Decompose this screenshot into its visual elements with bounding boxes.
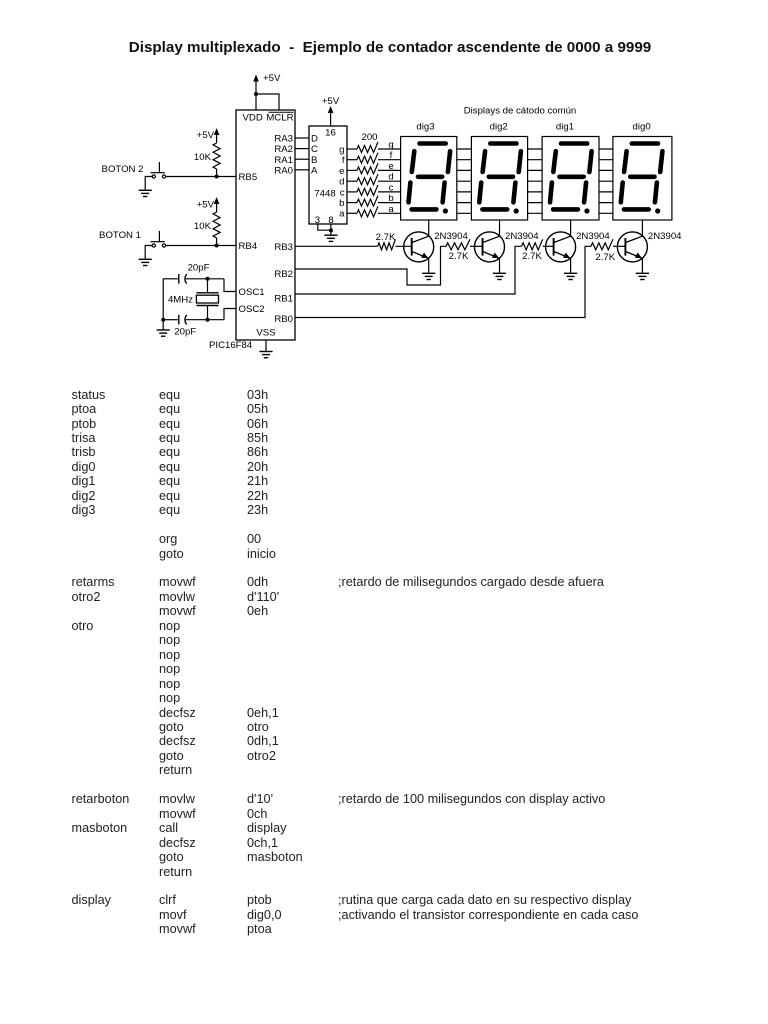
svg-text:BOTON 2: BOTON 2 — [102, 164, 144, 175]
U2 pin number 8 — [328, 215, 333, 226]
label Q2 2N3904 — [505, 231, 539, 242]
resistor 200 segment c — [357, 185, 378, 196]
U2 pin label c — [340, 187, 345, 198]
svg-text:dig2: dig2 — [490, 122, 508, 133]
label BOTON 2 — [102, 164, 144, 175]
U1 pin label MCLR (active low) — [266, 112, 293, 123]
node XTAL bottom junction — [206, 318, 210, 322]
wire to OSC2 — [224, 309, 236, 320]
U2 pin label A — [311, 165, 318, 176]
label 20pF (C2) — [174, 327, 196, 338]
wire segment c to displays — [378, 191, 613, 193]
svg-text:RB0: RB0 — [274, 314, 293, 325]
resistor 200 segment b — [357, 196, 378, 207]
resistor network value 200 — [361, 132, 377, 143]
svg-text:+5V: +5V — [322, 96, 340, 107]
label 10K (R2) — [194, 221, 212, 232]
U2 pin label D — [311, 134, 318, 145]
svg-text:OSC1: OSC1 — [239, 287, 265, 298]
ground Q4 — [636, 273, 649, 279]
svg-text:PIC16F84: PIC16F84 — [209, 340, 253, 351]
U1 pin label VDD — [243, 113, 263, 124]
svg-text:C: C — [311, 144, 318, 155]
node pin8 junction — [329, 228, 333, 232]
wire rail to ground — [162, 320, 164, 330]
U2 pin label g — [339, 144, 344, 155]
svg-text:g: g — [339, 144, 344, 155]
push button S1 BOTON 1 — [151, 231, 166, 247]
label 10K (R1) — [194, 152, 212, 163]
resistor R2 10K pullup — [213, 212, 220, 246]
U2 pin number 3 — [315, 215, 320, 226]
resistor 200 segment e — [357, 163, 378, 174]
transistor Q4 2N3904 — [617, 232, 647, 262]
IC U2 7448 body — [309, 126, 347, 224]
wire Q2 emitter to ground — [499, 258, 501, 273]
svg-text:RB1: RB1 — [274, 294, 293, 305]
svg-text:+5V: +5V — [197, 130, 215, 141]
label 4MHz (X1) — [168, 295, 193, 306]
wire S1 to RB4 — [166, 245, 236, 247]
node RB4 pullup junction — [215, 244, 219, 248]
U2 pin label d — [339, 177, 344, 188]
display dig0 7-segment — [613, 137, 672, 221]
wire segment g to displays — [378, 148, 613, 150]
label Q4 2N3904 — [648, 231, 682, 242]
U1 pin label RB5 — [239, 172, 258, 183]
wire 7448 d to resistor — [347, 180, 357, 182]
svg-text:c: c — [340, 187, 345, 198]
wire segment f to displays — [378, 159, 613, 161]
ground VSS — [259, 352, 272, 358]
wire display cathode to Q1 collector — [428, 220, 430, 237]
svg-text:2N3904: 2N3904 — [576, 231, 610, 242]
label 2.7K (Q3) — [522, 251, 542, 262]
wire segment d to displays — [378, 180, 613, 182]
wire RB0 from U1 — [295, 246, 591, 317]
U1 pin label RA0 — [274, 165, 293, 176]
wire 7448 pins 3,8 to ground — [318, 224, 331, 235]
transistor Q1 2N3904 — [404, 232, 434, 262]
svg-text:c: c — [389, 182, 394, 193]
svg-text:b: b — [339, 198, 344, 209]
U1 pin label OSC2 — [239, 304, 265, 315]
transistor Q3 2N3904 — [546, 232, 576, 262]
svg-text:RA1: RA1 — [274, 155, 293, 166]
svg-text:RB5: RB5 — [239, 172, 258, 183]
+5V supply arrow (7448 pin 16) — [322, 96, 340, 126]
resistor 2.7K (Q2 base) — [446, 239, 483, 250]
node RB5 pullup junction — [215, 175, 219, 179]
label 2.7K (Q2) — [449, 251, 469, 262]
svg-text:BOTON 1: BOTON 1 — [99, 230, 141, 241]
wire segment a to displays — [378, 212, 613, 214]
wire 7448 c to resistor — [347, 191, 357, 193]
svg-text:20pF: 20pF — [174, 327, 196, 338]
svg-text:A: A — [311, 165, 318, 176]
wire +5V to VDD pin — [255, 94, 257, 110]
U2 pin label f — [342, 155, 345, 166]
wire display cathode to Q2 collector — [499, 220, 501, 237]
U2 pin label B — [311, 155, 317, 166]
svg-text:b: b — [388, 193, 393, 204]
label dig0 — [633, 122, 651, 133]
display dig2 7-segment — [471, 137, 527, 221]
net label b — [388, 193, 393, 204]
display dig3 7-segment — [401, 137, 457, 221]
ground 7448 — [324, 235, 337, 241]
wire RA0 to 7448 — [295, 169, 309, 171]
wire RB1 from U1 — [295, 246, 522, 294]
ground S2 — [139, 190, 152, 196]
svg-text:4MHz: 4MHz — [168, 295, 193, 306]
wire 7448 e to resistor — [347, 169, 357, 171]
U1 pin label RB1 — [274, 294, 293, 305]
label Q1 2N3904 — [434, 231, 468, 242]
U1 pin label RB2 — [274, 269, 293, 280]
crystal X1 4MHz — [196, 279, 218, 320]
wire display cathode to Q4 collector — [641, 220, 643, 237]
svg-text:g: g — [388, 140, 393, 151]
svg-text:2.7K: 2.7K — [595, 252, 615, 263]
label dig2 — [490, 122, 508, 133]
wire RA3 to 7448 — [295, 137, 309, 139]
net label g — [388, 140, 393, 151]
net label a — [388, 204, 394, 215]
wire 7448 b to resistor — [347, 202, 357, 204]
+5V supply arrow (VDD) — [253, 73, 281, 94]
wire display cathode to Q3 collector — [570, 220, 572, 237]
U1 pin label RA3 — [274, 134, 293, 145]
U1 pin label RB4 — [239, 241, 258, 252]
svg-text:dig1: dig1 — [556, 122, 574, 133]
wire S1 to ground — [145, 246, 152, 260]
svg-text:10K: 10K — [194, 221, 212, 232]
resistor 200 segment d — [357, 174, 378, 185]
resistor 2.7K (Q4 base) — [591, 239, 625, 250]
svg-text:RB4: RB4 — [239, 241, 258, 252]
net label e — [388, 161, 393, 172]
U2 reference label 7448 — [314, 189, 335, 200]
resistor 200 segment a — [357, 206, 378, 217]
svg-text:d: d — [388, 172, 393, 183]
svg-text:2N3904: 2N3904 — [434, 231, 468, 242]
net label f — [390, 150, 393, 161]
ground Q1 — [422, 273, 435, 279]
svg-text:10K: 10K — [194, 152, 212, 163]
title — [6, 39, 768, 56]
wire RA1 to 7448 — [295, 158, 309, 160]
push button S2 BOTON 2 — [151, 162, 166, 178]
wire S2 to ground — [145, 177, 152, 191]
svg-text:7448: 7448 — [314, 189, 335, 200]
svg-text:d: d — [339, 177, 344, 188]
wire segment b to displays — [378, 202, 613, 204]
net label c — [389, 182, 394, 193]
svg-text:2N3904: 2N3904 — [505, 231, 539, 242]
label dig1 — [556, 122, 574, 133]
resistor 2.7K (Q3 base) — [522, 239, 554, 250]
U1 pin label OSC1 — [239, 287, 265, 298]
U2 pin label b — [339, 198, 344, 209]
svg-text:dig0: dig0 — [633, 122, 651, 133]
svg-text:OSC2: OSC2 — [239, 304, 265, 315]
+5V supply arrow (R2) — [197, 197, 220, 212]
svg-text:f: f — [342, 155, 345, 166]
label BOTON 1 — [99, 230, 141, 241]
resistor 200 segment f — [357, 153, 378, 164]
wire 7448 g to resistor — [347, 148, 357, 150]
U1 pin label RB0 — [274, 314, 293, 325]
svg-text:VSS: VSS — [256, 328, 275, 339]
ground S1 — [139, 259, 152, 265]
wire oscillator left rail — [162, 279, 164, 320]
resistor R1 10K pullup — [213, 143, 220, 177]
svg-text:a: a — [388, 204, 394, 215]
U1 pin label RA2 — [274, 144, 293, 155]
svg-text:D: D — [311, 134, 318, 145]
U2 pin label e — [339, 166, 344, 177]
wire Q4 emitter to ground — [641, 258, 643, 273]
svg-text:VDD: VDD — [243, 113, 263, 124]
svg-text:2N3904: 2N3904 — [648, 231, 682, 242]
svg-text:2.7K: 2.7K — [376, 232, 396, 243]
ground Q3 — [564, 273, 577, 279]
resistor 200 segment g — [357, 142, 378, 153]
svg-text:+5V: +5V — [197, 200, 215, 211]
wire to OSC1 — [224, 279, 236, 292]
resistor 2.7K (Q1 base) — [378, 239, 412, 250]
node XTAL top junction — [206, 277, 210, 281]
svg-text:f: f — [390, 150, 393, 161]
label Displays de catodo comun — [464, 106, 577, 117]
U1 pin label RB3 — [274, 242, 293, 253]
svg-text:e: e — [388, 161, 393, 172]
ground Q2 — [493, 273, 506, 279]
svg-text:RA3: RA3 — [274, 134, 293, 145]
wire +5V to MCLR pin — [256, 94, 279, 110]
capacitor C2 20pF — [163, 315, 224, 325]
display dig1 7-segment — [542, 137, 599, 221]
label 2.7K (Q4) — [595, 252, 615, 263]
U2 pin label a — [339, 209, 345, 220]
net label d — [388, 172, 393, 183]
U1 pin label VSS — [256, 328, 275, 339]
wire RB2 from U1 — [295, 246, 446, 285]
svg-text:2.7K: 2.7K — [522, 251, 542, 262]
svg-text:dig3: dig3 — [416, 122, 434, 133]
svg-text:e: e — [339, 166, 344, 177]
label Q3 2N3904 — [576, 231, 610, 242]
svg-text:RB2: RB2 — [274, 269, 293, 280]
svg-text:RB3: RB3 — [274, 242, 293, 253]
transistor Q2 2N3904 — [475, 232, 505, 262]
wire RB3 from U1 — [295, 245, 378, 247]
wire Q3 emitter to ground — [570, 258, 572, 273]
svg-text:B: B — [311, 155, 317, 166]
label 2.7K (Q1) — [376, 232, 396, 243]
wire VSS to ground — [265, 340, 267, 352]
IC U1 PIC16F84 body — [236, 110, 295, 340]
svg-text:16: 16 — [325, 128, 336, 139]
capacitor C1 20pF — [163, 274, 224, 284]
svg-text:RA2: RA2 — [274, 144, 293, 155]
wire 7448 f to resistor — [347, 159, 357, 161]
wire segment e to displays — [378, 169, 613, 171]
svg-text:Displays de cátodo común: Displays de cátodo común — [464, 106, 577, 117]
node left rail junction — [161, 318, 165, 322]
node VDD junction — [254, 92, 258, 96]
svg-text:RA0: RA0 — [274, 165, 293, 176]
svg-text:MCLR: MCLR — [266, 113, 293, 124]
wire S2 to RB5 — [166, 176, 236, 178]
svg-text:200: 200 — [361, 132, 377, 143]
ground oscillator — [157, 330, 170, 336]
svg-text:a: a — [339, 209, 345, 220]
svg-text:20pF: 20pF — [188, 263, 210, 274]
wire RA2 to 7448 — [295, 148, 309, 150]
U2 pin number 16 — [325, 128, 336, 139]
wire Q1 emitter to ground — [428, 258, 430, 273]
U1 pin label RA1 — [274, 155, 293, 166]
U2 pin label C — [311, 144, 318, 155]
+5V supply arrow (R1) — [197, 128, 220, 143]
svg-text:+5V: +5V — [263, 73, 281, 84]
label 20pF (C1) — [188, 263, 210, 274]
U1 reference label PIC16F84 — [209, 340, 253, 351]
label dig3 — [416, 122, 434, 133]
wire 7448 a to resistor — [347, 212, 357, 214]
svg-text:2.7K: 2.7K — [449, 251, 469, 262]
